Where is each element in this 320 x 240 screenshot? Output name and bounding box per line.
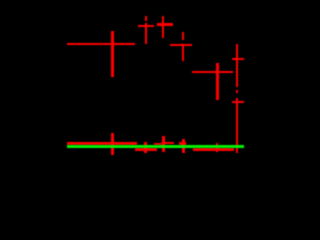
data bin 5 horizontal error bar [170, 44, 192, 46]
data bin 8 horizontal error bar [232, 101, 244, 104]
data bin 1 horizontal error bar [67, 43, 135, 46]
data bin 7 horizontal error bar [232, 58, 244, 61]
data bin 7 vertical error bar [236, 44, 239, 87]
data bin 4 horizontal error bar [157, 23, 173, 25]
data bin 13 horizontal error bar [179, 142, 186, 145]
data bin 12 horizontal error bar [162, 142, 174, 144]
data bin 3 upper error tip [145, 16, 148, 21]
data bin 11 horizontal error bar [154, 143, 162, 145]
data bin 6 horizontal error bar [192, 71, 233, 74]
data bin 5 upper error tip [182, 32, 184, 40]
data bin 8 upper error tip [236, 90, 239, 94]
data bin 10 vertical error bar [144, 142, 147, 154]
data bin 3 vertical error bar [145, 23, 147, 43]
data bin 2 vertical error bar [111, 133, 113, 155]
data bin 13 vertical error bar [182, 139, 185, 153]
data bin 9 horizontal error bar below line [193, 148, 234, 151]
data bin 8 vertical error bar [236, 98, 239, 153]
data bin 9 vertical error bar [216, 143, 219, 152]
data bin 3 horizontal error bar [138, 25, 154, 28]
data bin 5 vertical error bar [182, 44, 184, 61]
data bin 2 horizontal error bar [67, 142, 138, 145]
data bin 6 vertical error bar [216, 63, 218, 101]
data bin 10 horizontal error bar below line [135, 148, 157, 150]
data bin 4 vertical error bar [162, 16, 164, 39]
data bin 12 vertical error bar [162, 136, 165, 152]
model line (ratio = 1) [67, 145, 245, 148]
data bin 1 vertical error bar [111, 31, 113, 77]
